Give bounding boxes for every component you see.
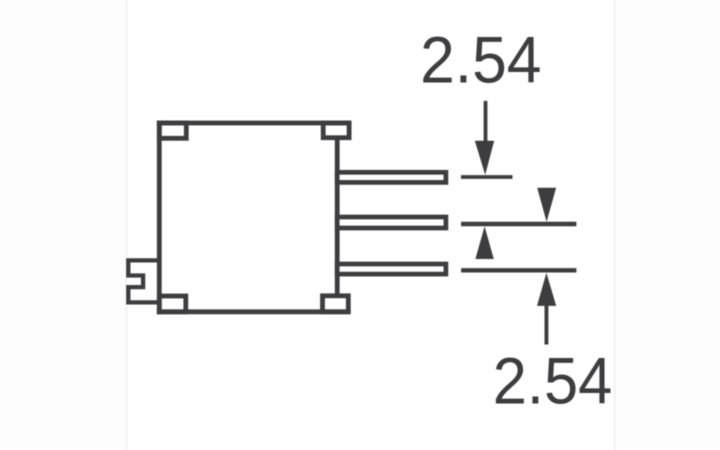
svg-text:2.54: 2.54 <box>420 23 541 97</box>
svg-text:2.54: 2.54 <box>493 343 612 418</box>
